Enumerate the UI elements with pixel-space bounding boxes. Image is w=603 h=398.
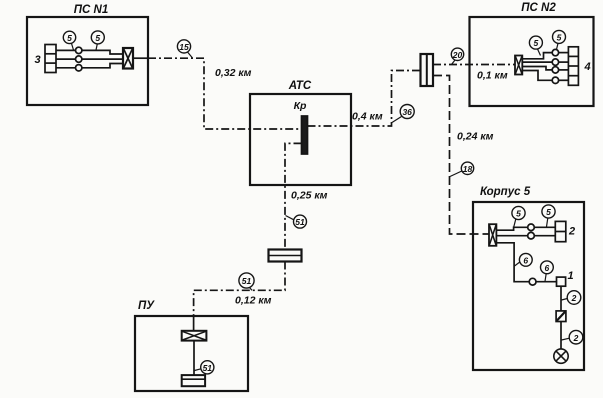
marker 5 (left, Корпус 5)	[512, 206, 525, 226]
wire exit ПС N1	[133, 57, 148, 59]
wire АТС down (0,25 км)	[285, 143, 328, 249]
svg-text:Кр: Кр	[294, 100, 307, 112]
marker 36	[392, 105, 414, 123]
wire down from socket	[560, 322, 562, 349]
marker 6 (right)	[541, 261, 554, 281]
svg-text:20: 20	[452, 50, 463, 60]
svg-text:5: 5	[546, 207, 551, 217]
svg-text:0,32 км: 0,32 км	[215, 67, 252, 79]
svg-text:5: 5	[534, 38, 539, 48]
box АТС	[250, 80, 351, 185]
junction circles (top branch, Корпус 5)	[528, 224, 535, 239]
marker 5 (right, ПС N1)	[91, 31, 104, 50]
wire down from box 1	[560, 286, 562, 311]
box ПС N2	[470, 2, 594, 106]
svg-text:6: 6	[523, 255, 528, 265]
wire bundle ПС N1	[56, 50, 123, 67]
wire ПС N1 to АТС (0,32 км)	[148, 58, 302, 129]
svg-text:Корпус 5: Корпус 5	[480, 186, 531, 198]
cabinet 4 (ПС N2)	[568, 47, 590, 86]
marker 6 (left)	[515, 253, 533, 266]
marker 18	[450, 162, 474, 176]
marker 2 (upper)	[562, 291, 581, 305]
marker 51 (0,25 км line)	[286, 215, 307, 228]
svg-text:0,4 км: 0,4 км	[352, 111, 383, 123]
wire inside ПУ	[193, 341, 195, 376]
plug box U4 (ПУ)	[182, 331, 207, 341]
wire bundle ПС N2	[522, 53, 568, 81]
svg-text:1: 1	[567, 270, 573, 282]
svg-text:18: 18	[463, 164, 473, 174]
marker 20	[451, 48, 463, 64]
svg-text:51: 51	[295, 217, 305, 227]
wire into ПУ	[193, 316, 195, 331]
cross-connect bar Кр	[294, 100, 308, 154]
marker 2 (lower)	[562, 330, 583, 344]
marker 5 (right, ПС N2)	[553, 30, 566, 49]
plug box U2 (ПС N2)	[515, 56, 522, 75]
lower branch wire (Корпус 5)	[496, 243, 557, 282]
marker 5 (right, Корпус 5)	[542, 205, 555, 227]
junction circles ПС N2	[552, 49, 558, 83]
svg-text:5: 5	[67, 33, 72, 43]
cabinet 3 (ПС N1)	[34, 45, 56, 73]
cable coupling (АТС–ПУ line)	[269, 250, 302, 262]
cable coupling box (near ПС N2)	[421, 54, 434, 86]
svg-text:ПС N1: ПС N1	[74, 4, 108, 16]
box ПС N1	[27, 4, 148, 105]
svg-text:5: 5	[557, 33, 562, 43]
svg-text:51: 51	[242, 276, 252, 286]
plug box U3 (Корпус 5)	[489, 224, 496, 246]
svg-text:36: 36	[402, 107, 412, 117]
svg-text:15: 15	[179, 42, 189, 52]
svg-text:2: 2	[573, 333, 579, 343]
svg-text:0,1 км: 0,1 км	[477, 70, 508, 82]
marker 15	[177, 40, 192, 58]
svg-text:ПС N2: ПС N2	[521, 2, 556, 14]
plug box U1 (ПС N1)	[123, 48, 133, 69]
svg-text:0,24 км: 0,24 км	[457, 131, 494, 143]
marker 51 (0,12 км line)	[239, 273, 254, 290]
svg-text:2: 2	[568, 226, 575, 238]
junction circle (lower branch)	[529, 278, 536, 285]
svg-text:6: 6	[545, 263, 550, 273]
svg-text:3: 3	[34, 54, 40, 66]
socket box with diagonal	[556, 311, 566, 322]
distribution box 1 (Корпус 5)	[557, 270, 574, 286]
terminal block (ПУ)	[182, 375, 205, 386]
marker 5 (left, ПС N1)	[63, 31, 75, 50]
wires to cabinet 2	[496, 227, 555, 235]
wire АТС to connector (0,4 км)	[308, 71, 421, 127]
lamp symbol (circle with X)	[554, 349, 568, 363]
cabinet 2 (Корпус 5)	[555, 221, 575, 241]
svg-text:ПУ: ПУ	[138, 300, 155, 312]
svg-text:5: 5	[516, 209, 521, 219]
svg-text:5: 5	[95, 33, 100, 43]
svg-text:4: 4	[583, 61, 590, 73]
svg-text:51: 51	[203, 363, 213, 373]
junction circles ПС N1	[76, 47, 82, 71]
marker 51 (ПУ)	[195, 361, 214, 374]
wire connector to Корпус 5 (0,24 км)	[433, 76, 494, 235]
marker 5 (left, ПС N2)	[529, 36, 542, 55]
wire coupling to ПУ (0,12 км)	[194, 262, 285, 317]
box Корпус 5	[473, 186, 584, 370]
box ПУ	[135, 300, 248, 391]
svg-text:0,25 км: 0,25 км	[291, 190, 328, 202]
svg-text:2: 2	[571, 293, 577, 303]
svg-text:АТС: АТС	[288, 80, 312, 92]
wire connector to ПС N2 (0,1 км)	[433, 65, 515, 82]
svg-text:0,12 км: 0,12 км	[235, 295, 272, 307]
